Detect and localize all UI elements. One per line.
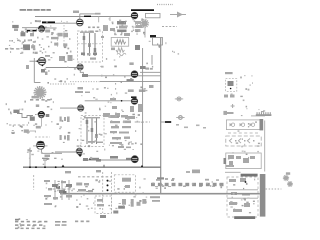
title text line [20,9,40,11]
wire left of V11 [55,151,76,153]
dark blob under bus [118,206,125,209]
cathode cap C9 [45,72,48,76]
tiny seven symbol [223,111,227,115]
texture input area ch1 [9,20,72,54]
bias dashed box [226,79,237,92]
dash row ch2 [9,124,28,126]
label under bus a [65,171,71,173]
wire V2 anode up [79,14,81,19]
grid comp b [30,33,34,36]
marks right of V6 a [145,68,149,70]
B3 blob c [250,156,255,159]
cluster v3 c [135,21,141,24]
input cluster big [23,44,30,50]
faint marks right of segment [176,124,179,126]
tone pot 1 [86,117,88,144]
tube V8 [131,98,138,105]
coupling pair b [60,135,62,140]
dashed arc over V10 [35,136,50,138]
texture under V3 extra [105,18,143,35]
input text row [5,48,19,50]
small cluster lower [192,170,200,174]
bus dashes left [53,188,76,190]
text above bus [95,13,101,15]
resistor cluster a [45,30,50,33]
texture input area ch2 [6,99,54,135]
bus dot 4 [55,166,57,168]
input cluster b [31,45,35,48]
plug icon b [287,181,293,187]
B1 diode a [230,123,235,126]
grid comp a [21,32,26,36]
capacitor Ca [51,37,59,39]
network text [44,180,50,182]
B2 arrow b [238,139,241,144]
text right mid [263,110,265,111]
coupler box [111,38,129,47]
texture right col boxes [228,121,260,166]
tube V6 [131,71,138,78]
texture ch2 mid [81,88,147,119]
output transformer squiggle [140,19,149,28]
choke box [153,38,163,46]
comp on KL wire a [91,158,99,161]
psu dashed box [114,175,135,192]
text bottom left r1 [15,221,47,223]
PT comp c [229,202,237,205]
wire vert V9-V10 [41,118,43,127]
wire V7 grid left [60,107,78,109]
grid comp d [24,40,26,42]
wire V4 to V5 [46,67,77,69]
input cluster c [34,52,37,54]
cluster v3 f [101,36,104,38]
texture switch row [152,181,222,189]
texture right of V6 [100,56,153,89]
junction dot V4 bottom [42,65,44,67]
cathode blob V9 [30,117,35,121]
cathode resistor R9 [41,69,45,73]
PT winding line b [227,197,258,199]
horiz wire y72 [140,71,161,73]
comp mid d [36,126,41,129]
rectifier box B1 [226,120,261,130]
cluster near V8 a [112,106,117,109]
bus drop a [98,17,100,23]
ch1 pot 1 [83,33,85,56]
cluster near V8 d [103,113,110,117]
texture tone area ch2 [57,116,144,147]
dashes between boxes [228,132,258,134]
psu dashed vert b [110,172,112,213]
left resistor network [54,180,56,200]
tube V5 [77,64,83,70]
cluster near V8 c [138,104,142,112]
plug icon a [283,175,289,181]
junction dot V4 grid [37,60,39,62]
rc label [227,112,234,114]
dotted pin row [157,4,173,6]
wire plate bus ch1 [35,16,135,18]
sawtooth connector [256,114,272,116]
wire cap to bus [44,163,46,167]
tube V12 [131,156,138,163]
tube V4 [38,57,46,65]
texture V4 row [44,56,76,83]
input jack ch1 [12,25,19,28]
B2 arrow a [229,139,232,144]
PT comp b [231,192,237,195]
wire V4 grid [30,60,39,62]
dark text row right [241,174,258,177]
dashed divider v2 [57,39,59,48]
label under bus b [96,170,101,172]
dark mark under OT [135,45,140,50]
texture under V3 [99,18,145,35]
text bottom right pair [55,221,61,223]
cross symbol [231,104,235,108]
text bottom left r2 [15,224,42,226]
wire V10 down [40,150,42,154]
row y89 blob a [128,89,134,92]
left vertical ch2b [29,148,31,168]
text bottom left r3 [15,228,45,230]
capacitor Cc [63,43,67,46]
black top bar V8 [131,96,137,98]
cluster bl a [76,183,82,186]
fuse symbol a [175,97,183,101]
fuse label box a [100,215,106,218]
B3 blob a [228,155,234,159]
tube V7 [78,105,84,111]
right vert wire [264,121,266,172]
B1 thick edge [260,119,264,130]
input jack ch2 [13,110,19,113]
bus dot 3 [44,166,46,168]
tube V11 [76,148,82,154]
black wire segment [165,121,171,123]
B2 dots [235,140,237,142]
tone text [84,117,100,118]
fuse symbol b [176,116,184,120]
label rows above K [88,141,95,143]
comp mid c [24,129,29,132]
cluster v3 d [110,28,115,31]
marks right of V6 b [150,68,153,70]
dash row under OT [162,26,177,28]
lower dashed rect [95,196,111,213]
texture pi area [149,41,179,55]
wire stub trim [30,130,36,132]
dotted line b [50,83,75,85]
label near V12 [118,146,124,148]
cluster v3 b [117,21,126,25]
bus dot 1 [29,166,31,168]
wire V1 grid right [45,27,57,29]
switch row upper bits [156,179,160,181]
comp ch2 b [36,104,39,107]
rotary switch starburst [34,86,47,99]
OT vertical wire [144,27,146,38]
title text line 2 [41,9,51,11]
black top bar V10 [38,141,44,143]
PT outline [227,177,258,217]
cluster block a [110,115,119,118]
cluster block d [110,131,117,133]
wire K to L [83,159,131,161]
black block top of bus [150,35,156,38]
resistor Rc [63,33,68,37]
psu dot 3 [107,189,109,191]
PT winding line a [227,189,258,191]
cluster near V8 b [130,106,134,112]
tube V9 [38,112,44,118]
ground bus ch2 [23,166,161,168]
bias sym pair [224,95,228,98]
bus drop b [109,17,111,22]
wire dash right [135,121,150,123]
switch squiggle [157,177,164,179]
texture PT box [230,179,255,214]
bus tick line [103,165,105,168]
tone stack dashed box [81,116,104,147]
wire G to H [103,100,131,102]
wire V3 plate black [131,9,154,11]
bias dot [230,88,232,90]
comp on KL wire b [110,156,118,159]
row y85 blob c [149,85,154,88]
bias label [225,72,233,74]
second vertical bus [142,48,144,167]
filter box B2 [226,136,261,146]
switch row text [151,183,224,186]
cluster under bus a [97,199,103,202]
wire grid line V2 [42,22,77,24]
texture bottom text [18,218,46,228]
long vertical bus [160,38,162,194]
speaker arrow icon [170,12,186,18]
dashed divider v1 [63,22,65,48]
PT black dot [245,181,247,183]
texture bottom center extra [77,181,147,207]
B3 left stub [224,158,227,164]
wire cathode vert [33,58,35,83]
black segment input [27,30,37,32]
vert wire x152 [151,55,153,65]
wire input to V1 [22,27,39,29]
label row mid [45,55,50,57]
coupling pair a [60,117,62,122]
network extra comps [53,197,58,200]
wire cathode horiz [34,82,40,84]
tube V10 [37,141,45,149]
dark bottom text [234,216,255,219]
cluster under bus b [122,199,126,205]
psu dot 1 [107,180,109,182]
B3 blob b [229,161,233,165]
bias blob [228,81,234,86]
bus tick triangle [62,165,65,167]
PT comp a [229,179,236,182]
resistor Rb [58,33,63,37]
bus dot 5 [141,165,143,167]
switch row marks [155,186,158,188]
cap symbol [42,157,48,159]
tone pot 2 [91,117,93,144]
psu dashed vert a [102,172,104,213]
label V2 [73,11,79,14]
comp left of V12 [126,158,131,161]
psu dot 2 [107,184,109,186]
wire to bus [161,121,165,123]
comp on left vert [27,149,30,151]
ch1 pot 2 [89,33,91,56]
wire V5 to V6 [83,75,160,77]
cluster block c [111,126,119,128]
cluster near V8 e [115,113,120,117]
V5 step down [80,70,83,76]
label V1 [35,20,41,22]
ch1 pot text [80,32,94,33]
tube V1 [39,26,45,32]
coupler wave c [117,53,126,56]
junction dot gh [121,100,123,102]
dotted line a [70,81,100,83]
ground bus main [60,193,260,195]
tube V2 [77,19,84,26]
V11 bottom wedge [78,154,83,157]
B1 diode c [250,123,255,126]
pot bottom marks [81,53,85,56]
blob at V5 out [82,74,88,77]
junction dot V11 [89,158,91,160]
capacitor Cb [54,43,58,46]
comp near V6 top [129,62,133,65]
tone pot 3 [96,117,98,144]
grid comp e [30,39,32,41]
psu inner comp b [125,185,130,188]
ch1 tone dashed box [78,31,103,62]
B1 diode b [240,123,245,126]
side lead V10 R [45,145,48,147]
mains thick bar [260,174,266,217]
text bottom center [75,221,89,223]
comp on wire gh [110,98,116,100]
cluster v3 e [124,33,130,36]
staircase wire [17,114,33,118]
texture V11 row [78,141,133,159]
junction blob [140,66,146,69]
comp right of V5 b [68,55,73,61]
dash row y176 [78,176,112,178]
cluster v3 a [103,25,108,31]
text under bus2 [90,31,98,33]
wire y116 [251,115,265,117]
text under bus left [150,196,160,198]
tube V3 output [131,12,138,19]
trim pot circle [27,131,30,134]
mains dotted wire [266,188,282,190]
cluster bl b [78,189,86,192]
texture bottom left net [45,181,73,207]
coupler zigzag b [116,48,124,52]
tiny blob right edge [286,172,290,175]
grid stopper blob [26,65,29,69]
wire black segment on bus [84,15,91,17]
text under bus [88,27,99,29]
wing right V9 [46,114,50,117]
coupler lower blob [111,48,115,51]
label on wire [45,155,51,158]
cluster near V8 f [125,116,135,119]
fuse label box b [113,211,118,214]
B2 arrow c [247,139,250,144]
plate resistor V6 [127,79,134,81]
grid comp f [11,40,13,42]
connector block J1 [146,13,161,17]
texture under V10 [27,149,63,165]
comp ch2 a [32,96,39,99]
coupler zigzag a [115,40,126,44]
heater box B3 [226,153,261,169]
bus dot 2 [35,166,37,168]
comp right of V5 a [59,56,65,61]
texture right col upper [231,75,260,116]
label row ch2 [75,91,83,93]
row y89 blob b [139,89,146,92]
wire black segment grid [42,21,55,23]
cluster block e [112,137,121,139]
texture input dense [20,40,43,53]
PT comp d [233,209,242,212]
dashed vert left [33,175,35,190]
wire bottom right boxes [225,171,241,173]
wire y153 [41,152,62,154]
texture bottom center [76,178,147,209]
side lead V10 L [33,145,36,147]
wire y81 solid [100,80,161,82]
ch1 dashed cross [78,43,103,45]
starburst text [30,99,50,101]
cluster block b [110,121,120,123]
ch1 pot 3 [94,33,96,56]
psu inner comp a [122,178,131,182]
cluster block f [110,142,122,144]
grid comp c [17,40,19,42]
